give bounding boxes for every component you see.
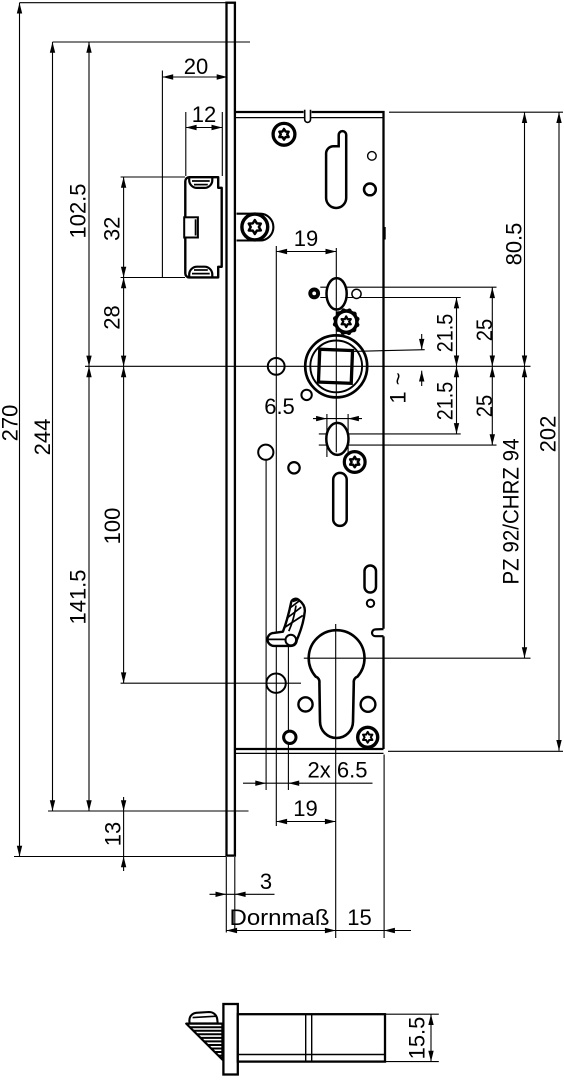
svg-text:32: 32: [99, 217, 124, 241]
lever pawl (boot shaped): [267, 599, 304, 646]
wire extension case bottom right y751: [388, 750, 563, 752]
svg-text:270: 270: [0, 405, 23, 442]
dimension 19 top line: [276, 251, 336, 253]
lock case right edge hook slot: [372, 629, 384, 636]
svg-text:202: 202: [536, 416, 561, 453]
dimension 20 line: [162, 71, 227, 278]
bold hole 6.5 lower-left: [284, 731, 296, 743]
oval hole upper (node A): [327, 278, 347, 309]
wire extension case top right y112: [389, 111, 563, 113]
svg-text:21.5: 21.5: [433, 314, 458, 353]
hook slot (d-shaped cutout): [326, 131, 346, 208]
lever pivot circle: [286, 635, 297, 646]
svg-text:15.5: 15.5: [405, 1017, 430, 1060]
dimension 244 line: [52, 42, 54, 811]
wire extension y297.5: [320, 297, 460, 299]
svg-text:102.5: 102.5: [66, 184, 91, 239]
lock case outline: [236, 112, 384, 749]
dimension 202 line: [558, 112, 560, 751]
centerline vertical follower: [335, 248, 337, 452]
dimension chain 102.5/141.5 line: [88, 42, 90, 811]
hole left of cylinder (100 ref): [266, 674, 285, 693]
follower (square spindle hub) outer ring: [305, 335, 367, 397]
wire extension latch top y177: [121, 176, 185, 178]
lock case right edge stub: [384, 227, 386, 240]
svg-text:19: 19: [293, 796, 317, 821]
svg-text:141.5: 141.5: [66, 570, 91, 625]
faceplate screw tab with torx screw U0: [237, 214, 274, 241]
latch bolt head cap bottom: [189, 267, 212, 277]
latch bolt left notch: [184, 217, 198, 237]
centerline horizontal follower: [85, 365, 531, 367]
dimension 1~ leader lines: [353, 334, 425, 386]
wire extension latch bottom y277.5: [121, 277, 185, 279]
svg-text:100: 100: [100, 508, 125, 545]
small hole top right: [368, 152, 377, 161]
oval hole lower (6.5 slot): [326, 423, 348, 455]
svg-text:19: 19: [294, 226, 318, 251]
svg-text:12: 12: [192, 102, 216, 127]
wire extension x276.3 vertical: [275, 246, 277, 826]
dimension Dornmass/15 line: [226, 755, 411, 939]
dimension 6.5 line: [313, 414, 362, 457]
svg-text:21.5: 21.5: [433, 382, 458, 421]
svg-text:244: 244: [30, 419, 55, 456]
lock case inner top line: [236, 117, 384, 119]
svg-text:Dornmaß: Dornmaß: [230, 905, 330, 930]
dimension 13 line: [123, 797, 125, 871]
slot vertical below follower: [333, 473, 347, 526]
svg-text:1 ~: 1 ~: [386, 372, 411, 403]
wire extension y287: [320, 286, 496, 288]
wire extension y856 bottom of faceplate: [14, 856, 226, 858]
wire dim extension 244/102.5 top: [53, 41, 251, 43]
lock case top notch: [304, 110, 312, 115]
screw torx mid U3: [344, 452, 365, 473]
svg-text:2x 6.5: 2x 6.5: [308, 758, 368, 783]
latch bolt (Falle) side view: [185, 177, 221, 277]
wire dim extension top 270: [20, 2, 227, 4]
hole right upper: [364, 184, 376, 196]
svg-text:20: 20: [184, 54, 208, 79]
dimension 15.5 line: [386, 1014, 439, 1061]
hole below-left of cylinder: [298, 697, 312, 711]
svg-text:3: 3: [260, 869, 272, 894]
small hole mid-left: [288, 462, 299, 473]
svg-text:25: 25: [472, 319, 497, 342]
dimension 21.5 upper/lower line: [456, 298, 458, 434]
dimension 80.5 / PZ chain line: [524, 112, 526, 658]
svg-text:80.5: 80.5: [502, 223, 527, 266]
screw torx top-left U1: [273, 123, 295, 145]
wire extension y811: [48, 810, 249, 812]
bottom view faceplate bar: [223, 1004, 237, 1075]
hole on centerline left: [268, 358, 285, 375]
follower square hole: [318, 349, 352, 383]
serrated adjuster screw U2: [333, 308, 360, 335]
wire extension y683 through hole center: [121, 682, 301, 684]
latch bolt head cap top: [189, 178, 212, 188]
svg-text:PZ 92/CHRZ 94: PZ 92/CHRZ 94: [498, 439, 523, 585]
bottom view body inner bottom line: [238, 1054, 385, 1056]
svg-text:25: 25: [472, 395, 497, 418]
lock case inner bottom line: [236, 752, 384, 754]
bottom view latch nose cap: [189, 1012, 217, 1023]
centerline vertical cylinder: [335, 624, 337, 938]
small hole right of oval: [352, 289, 361, 298]
small slot lower right: [365, 566, 377, 593]
centerline horizontal cylinder: [304, 657, 531, 659]
screw torx bottom-right U4: [358, 727, 378, 747]
filled pin dot: [308, 288, 320, 300]
dimension 270 line: [19, 3, 21, 857]
bottom view lock body: [238, 1014, 385, 1061]
dimension 3 line: [210, 857, 275, 933]
small hole under slot: [367, 600, 374, 607]
svg-text:13: 13: [101, 822, 126, 846]
hole right of cylinder: [361, 697, 376, 712]
wire extension y434: [319, 433, 461, 435]
svg-text:28: 28: [99, 305, 124, 329]
follower inner ring: [310, 341, 362, 393]
dimension chain 32/28/100 line: [123, 177, 125, 683]
dimension 25 upper/lower line: [491, 287, 493, 445]
dimension 2x6.5 line: [243, 460, 373, 790]
faceplate (Stulp) front view: [227, 3, 235, 856]
hole 6.5 upper-left: [258, 445, 273, 460]
small hole below follower: [301, 390, 311, 400]
svg-text:15: 15: [347, 905, 371, 930]
dimension 12 line: [186, 112, 223, 176]
dimension 19 bottom line: [276, 821, 335, 823]
svg-text:6.5: 6.5: [264, 394, 295, 419]
bottom view body inner double vertical: [306, 1014, 312, 1061]
wire extension y445: [319, 444, 497, 446]
euro profile cylinder hole: [309, 630, 365, 738]
